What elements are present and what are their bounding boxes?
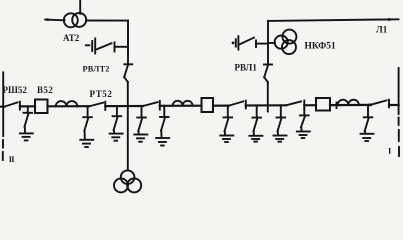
- wire: vertical V1 lower segment down to transformer: [127, 82, 129, 171]
- ground branch b9: [297, 109, 310, 138]
- ground branch b1: [20, 106, 33, 140]
- svg-text:Л1: Л1: [376, 25, 388, 35]
- wire: lead to NKF51: [268, 42, 275, 44]
- ground branch b10: [361, 105, 374, 141]
- svg-text:I: I: [388, 146, 392, 156]
- current transformer arcs TT1: [56, 101, 78, 106]
- wire: bus segment 5: [160, 105, 202, 107]
- transformer T (three overlapping circles): [114, 170, 141, 192]
- disconnector blade4 (bus blade): [229, 101, 246, 109]
- current transformer arcs TT3: [338, 100, 359, 105]
- wire: bus segment 1: [0, 105, 5, 107]
- current transformer arcs TT2: [173, 101, 193, 106]
- section line I (right, partly dashed): [398, 68, 400, 156]
- junction dot j1: [368, 103, 371, 106]
- disconnector RVL1: [232, 36, 268, 49]
- wire: bus segment 8: [304, 104, 316, 106]
- disconnector blade5 (bus blade): [286, 101, 304, 110]
- ground branch b7: [249, 106, 262, 142]
- wire: vertical V2 upper segment: [267, 21, 269, 64]
- section line II (left, partly dashed): [2, 72, 4, 160]
- junction tick t1: [336, 103, 338, 109]
- wire: AT2 left lead with arrowhead: [44, 18, 65, 21]
- wire: bus segment 9: [330, 104, 371, 106]
- disconnector blade on V1: [124, 64, 132, 82]
- breaker box2: [202, 98, 214, 112]
- wire: bus segment 4: [105, 105, 143, 107]
- wire: top right line to L1 with arrowhead: [268, 18, 399, 21]
- breaker V52 (box): [35, 100, 48, 114]
- svg-text:НКФ51: НКФ51: [305, 41, 336, 51]
- ground branch b6: [220, 106, 233, 142]
- svg-text:РВЛ1: РВЛ1: [235, 63, 258, 73]
- ground branch b3: [110, 106, 123, 141]
- wire: vertical V2 lower segment to bus: [267, 82, 269, 112]
- wire: bus segment 6: [213, 104, 229, 106]
- disconnector blade3 (bus blade): [143, 101, 160, 110]
- svg-text:II: II: [9, 154, 16, 164]
- ground branch b4: [134, 106, 147, 142]
- wire: riser from AT2 to top edge: [79, 0, 81, 14]
- disconnector blade6 (bus blade): [371, 100, 389, 108]
- disconnector blade on V2: [264, 65, 272, 83]
- ground branch b8: [274, 105, 287, 141]
- svg-text:РШ52: РШ52: [3, 85, 28, 95]
- wire: vertical V1 upper segment: [127, 21, 129, 64]
- svg-text:АТ2: АТ2: [63, 33, 80, 43]
- disconnector RT52 (bus blade): [89, 102, 105, 110]
- voltage transformer NKF51 (three overlapping circles): [275, 30, 297, 55]
- wire: bus segment 10: [389, 104, 399, 106]
- wire: bus segment 7: [246, 104, 286, 106]
- svg-text:РТ52: РТ52: [90, 89, 113, 99]
- disconnector RVLT2: [86, 39, 128, 54]
- ground branch b5: [156, 106, 169, 146]
- wire: bus segment 3: [48, 105, 90, 107]
- ground branch b2: [80, 106, 93, 147]
- svg-text:РВЛТ2: РВЛТ2: [83, 65, 110, 74]
- svg-text:В52: В52: [37, 85, 53, 95]
- breaker box3: [316, 98, 330, 111]
- disconnector RSh52 (bus blade): [5, 102, 20, 110]
- wire: AT2 right lead to corner: [86, 20, 128, 22]
- transformer AT2 (two overlapping circles): [64, 13, 86, 27]
- wire: bus segment 2: [20, 105, 35, 107]
